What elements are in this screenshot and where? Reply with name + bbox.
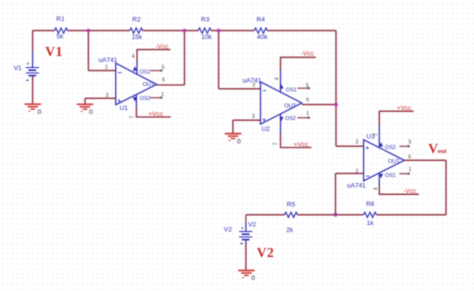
- wire node A to U1 pin 2: [87, 31, 89, 71]
- wire: [377, 214, 447, 216]
- svg-text:+: +: [262, 117, 266, 124]
- svg-text:5: 5: [409, 139, 412, 145]
- node D junction: [334, 103, 338, 107]
- svg-text:7: 7: [373, 133, 379, 136]
- svg-text:+: +: [117, 98, 121, 105]
- svg-text:V2: V2: [257, 245, 274, 260]
- svg-text:−: −: [118, 70, 122, 77]
- svg-text:1: 1: [409, 167, 412, 173]
- wire V2 riser: [245, 215, 247, 223]
- wire bottom rail: [246, 214, 285, 216]
- svg-text:OUT: OUT: [388, 159, 400, 165]
- svg-text:OS2: OS2: [285, 116, 296, 122]
- svg-text:0: 0: [38, 109, 42, 116]
- wire V1 riser: [32, 31, 34, 51]
- svg-text:+: +: [26, 62, 29, 68]
- wire U1 output / node B feedback: [157, 84, 185, 86]
- svg-text:1k: 1k: [367, 220, 375, 227]
- wire: [143, 30, 199, 32]
- svg-text:V1: V1: [45, 44, 63, 59]
- wire node D vertical: [335, 31, 337, 147]
- wire: [267, 30, 336, 32]
- wire: [298, 214, 364, 216]
- op-amp U3 uA741: [347, 125, 404, 189]
- resistor R3: [198, 28, 211, 33]
- svg-text:3: 3: [252, 114, 255, 120]
- op-amp U1 uA741: [99, 57, 157, 112]
- svg-text:U2: U2: [262, 126, 271, 133]
- svg-text:7: 7: [129, 115, 135, 118]
- svg-text:R3: R3: [201, 17, 210, 24]
- svg-text:OS1: OS1: [385, 173, 396, 179]
- U3 OS1 pin stub: [399, 173, 408, 175]
- node C junction: [217, 29, 221, 33]
- wire node C to U2 pin 2: [218, 31, 220, 89]
- resistor R5: [285, 212, 298, 217]
- wire U2 output: [302, 104, 336, 106]
- svg-text:4: 4: [275, 77, 281, 80]
- svg-text:2: 2: [105, 65, 108, 71]
- U3 OS2 pin stub: [399, 145, 408, 147]
- svg-text:7: 7: [273, 142, 279, 145]
- wire U1 pin 3 to ground: [85, 97, 116, 99]
- svg-text:2k: 2k: [286, 227, 294, 234]
- svg-text:U1: U1: [120, 105, 129, 112]
- svg-text:10k: 10k: [201, 34, 212, 41]
- node E junction: [334, 213, 338, 217]
- voltage source V1: [26, 51, 39, 81]
- svg-text:0: 0: [89, 109, 93, 116]
- resistor R2: [130, 28, 143, 33]
- resistor R4: [254, 28, 267, 33]
- svg-text:4: 4: [374, 187, 380, 190]
- svg-text:R6: R6: [366, 201, 375, 208]
- svg-text:0: 0: [251, 275, 255, 282]
- U3 +Vcc connector: [378, 111, 380, 125]
- svg-text:R1: R1: [56, 16, 65, 23]
- svg-text:V2: V2: [248, 221, 256, 228]
- wire V1 to ground: [32, 76, 34, 104]
- svg-text:40k: 40k: [257, 34, 268, 41]
- svg-text:6: 6: [306, 97, 309, 103]
- svg-text:OS2: OS2: [140, 96, 151, 102]
- svg-text:V1: V1: [14, 65, 22, 72]
- svg-text:+Vcc: +Vcc: [294, 141, 309, 148]
- svg-text:4: 4: [132, 54, 135, 60]
- svg-text:OS1: OS1: [140, 70, 151, 76]
- resistor R6: [364, 212, 377, 217]
- svg-text:+Vcc: +Vcc: [148, 111, 163, 118]
- U3 -Vcc connector: [378, 186, 380, 195]
- ground V1 (0): [25, 104, 41, 111]
- svg-text:5k: 5k: [57, 33, 65, 40]
- resistor R1: [55, 28, 68, 33]
- U1 +Vcc connector: [135, 108, 137, 118]
- svg-text:OUT: OUT: [284, 104, 296, 110]
- svg-text:OS2: OS2: [385, 145, 396, 151]
- svg-text:OUT: OUT: [143, 82, 155, 88]
- node A junction: [87, 29, 91, 33]
- wire: [68, 30, 130, 32]
- svg-text:-Vcc: -Vcc: [301, 51, 315, 58]
- svg-text:+: +: [241, 226, 244, 232]
- svg-text:uA741: uA741: [347, 182, 366, 189]
- svg-text:2: 2: [253, 82, 256, 88]
- U1 OS1 pin stub: [150, 70, 161, 72]
- wire feedback right vertical: [445, 160, 447, 215]
- U2 OS2 pin stub: [297, 117, 309, 119]
- wire to U3 pin 3: [336, 145, 364, 147]
- U2 OS1 pin stub: [297, 87, 309, 89]
- svg-text:−: −: [262, 88, 266, 95]
- ground V2 (0): [238, 271, 254, 278]
- ground U2 pin3 (0): [225, 134, 241, 141]
- wire: [211, 30, 254, 32]
- svg-text:6: 6: [162, 77, 165, 83]
- svg-text:V2: V2: [224, 227, 232, 234]
- svg-text:1: 1: [306, 111, 309, 117]
- op-amp U2 uA741: [243, 70, 302, 134]
- ground U1 pin3 (0): [77, 104, 93, 111]
- node B junction: [183, 29, 187, 33]
- svg-text:0: 0: [237, 139, 241, 146]
- U2 +Vcc connector: [280, 134, 282, 148]
- svg-text:R4: R4: [257, 17, 266, 24]
- svg-text:uA741: uA741: [99, 57, 118, 64]
- U1 OS2 pin stub: [150, 97, 161, 99]
- svg-text:+Vcc: +Vcc: [397, 105, 412, 112]
- svg-text:−: −: [366, 174, 370, 181]
- wire top rail seg1: [33, 30, 55, 32]
- wire U3 output: [404, 159, 446, 161]
- wire node E to U3 pin 2: [335, 173, 337, 214]
- wire V2 to ground: [245, 244, 247, 271]
- wire U2 pin 3 to ground: [233, 119, 261, 121]
- voltage source V2: [239, 223, 252, 245]
- svg-text:R5: R5: [287, 201, 296, 208]
- svg-text:-Vcc: -Vcc: [403, 188, 417, 195]
- svg-text:-Vcc: -Vcc: [155, 44, 169, 51]
- U2 -Vcc connector: [280, 57, 282, 70]
- svg-text:+: +: [365, 145, 369, 152]
- svg-text:OS1: OS1: [286, 88, 297, 94]
- U1 -Vcc connector: [136, 50, 138, 62]
- svg-text:out: out: [438, 148, 448, 155]
- svg-text:R2: R2: [132, 16, 141, 23]
- svg-text:15k: 15k: [132, 34, 143, 41]
- svg-text:3: 3: [356, 140, 359, 146]
